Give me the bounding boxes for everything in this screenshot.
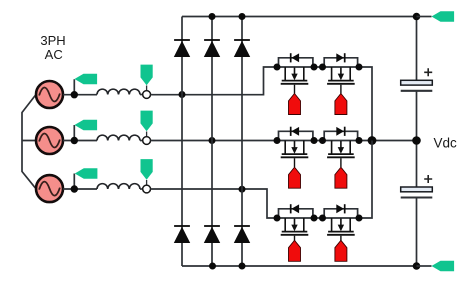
wire: DC+ to flag [417, 16, 432, 18]
wire: antiparallel loop Q1 [279, 58, 313, 67]
diode D7 (antiparallel of Q1) [291, 53, 299, 62]
wire: phase A node to bridge and switch row 1 [151, 67, 278, 95]
inductor L1 (phase A) [97, 89, 140, 94]
green flag (probe) phase B node [141, 111, 153, 137]
green flag DC+ [432, 11, 455, 21]
diode D8 (antiparallel of Q2) [336, 53, 344, 62]
node dot phase C source output [71, 185, 78, 192]
node dots row 2 [274, 137, 281, 144]
node B junction on bridge leg 2 [209, 137, 216, 144]
wire: DC link vertical [416, 17, 418, 267]
node dots row 3 [274, 215, 281, 222]
gate flag Q2 [335, 94, 347, 115]
diode D10 (antiparallel of Q4) [336, 127, 344, 136]
MOSFET Q1 [281, 67, 309, 94]
diode D6 (lower, leg 3) [234, 226, 250, 243]
wire: antiparallel loop Q3 [279, 131, 313, 140]
wire: switch row 3 node rail [277, 141, 372, 219]
node dot bottom rail leg 2 [209, 263, 216, 270]
green tag (net label) phase A source [75, 74, 98, 84]
wire: phase B source to inductor [63, 125, 97, 141]
green flag (probe) phase C node [141, 159, 153, 185]
wire: phase B node to bridge and switch row 2 [151, 140, 278, 142]
node dot phase B source output [71, 137, 78, 144]
wire: switch row 2 node rail [277, 140, 417, 142]
wire: DC+ top rail [182, 16, 417, 18]
AC source V3 (phase C) [36, 175, 63, 202]
gate flag Q4 [335, 167, 347, 188]
diode D1 (upper, leg 1) [174, 40, 190, 57]
AC source V2 (phase B) [36, 127, 63, 154]
MOSFET Q5 [281, 218, 309, 245]
wire: rectifier bridge leg 2 [211, 17, 213, 267]
green flag DC- [432, 261, 455, 271]
diode D5 (lower, leg 2) [204, 226, 220, 243]
diode D12 (antiparallel of Q6) [336, 204, 344, 213]
capacitor C1 (upper DC link) [401, 68, 433, 91]
node dot bottom rail leg 3 [239, 263, 246, 270]
node dots row 1 [274, 64, 281, 71]
gate flag Q5 [289, 240, 301, 261]
wire: inductor L3 to node [140, 188, 143, 190]
wire: phase C node to bridge and switch row 3 [151, 189, 278, 218]
node dot top rail leg 2 [209, 13, 216, 20]
diode D3 (upper, leg 3) [234, 40, 250, 57]
wire: rectifier bridge leg 3 [241, 17, 243, 267]
gate flag Q6 [335, 240, 347, 261]
wire: inductor L2 to node [140, 140, 143, 142]
gate flag Q1 [289, 94, 301, 115]
wire: DC- to flag [417, 265, 432, 267]
capacitor C2 (lower DC link) [401, 175, 433, 198]
green tag (net label) phase B source [75, 120, 98, 130]
node: neutral point junction [368, 136, 377, 145]
wire: inductor L1 to node [140, 94, 143, 96]
diode D9 (antiparallel of Q3) [291, 127, 299, 136]
node dot phase A source output [71, 91, 78, 98]
open node phase B [143, 137, 151, 145]
svg-text:3PH: 3PH [40, 33, 65, 48]
wire: left bus of 3-phase source [22, 96, 36, 188]
wire: rectifier bridge leg 1 [181, 17, 183, 267]
diode D4 (lower, leg 1) [174, 226, 190, 243]
diode D2 (upper, leg 2) [204, 40, 220, 57]
wire: antiparallel loop Q4 [324, 131, 357, 140]
diode D11 (antiparallel of Q5) [291, 204, 299, 213]
open node phase C [143, 185, 151, 193]
node dot midpoint Vdc [412, 136, 421, 145]
wire: switch row 1 node rail [277, 67, 372, 141]
green tag (net label) phase C source [75, 168, 98, 178]
node dot DC+ [413, 13, 421, 21]
wire: antiparallel loop Q2 [324, 58, 357, 67]
wire: DC- bottom rail [182, 265, 417, 267]
AC source V1 (phase A) [36, 81, 63, 108]
MOSFET Q2 [327, 67, 355, 94]
inductor L3 (phase C) [97, 184, 140, 189]
wire: phase C source to inductor [63, 174, 97, 190]
open node phase A [143, 91, 151, 99]
MOSFET Q4 [327, 141, 355, 168]
svg-text:AC: AC [45, 47, 63, 62]
wire: antiparallel loop Q6 [324, 209, 357, 218]
node dot top rail leg 3 [239, 13, 246, 20]
MOSFET Q3 [281, 141, 309, 168]
gate flag Q3 [289, 167, 301, 188]
wire: antiparallel loop Q5 [279, 209, 313, 218]
svg-text:Vdc: Vdc [434, 136, 458, 151]
inductor L2 (phase B) [97, 135, 140, 140]
node A junction on bridge leg 1 [179, 91, 186, 98]
node dot DC- [413, 262, 421, 270]
green flag (probe) phase A node [141, 65, 153, 91]
wire: phase A source to inductor [63, 79, 97, 95]
node C junction on bridge leg 3 [239, 186, 246, 193]
MOSFET Q6 [327, 218, 355, 245]
